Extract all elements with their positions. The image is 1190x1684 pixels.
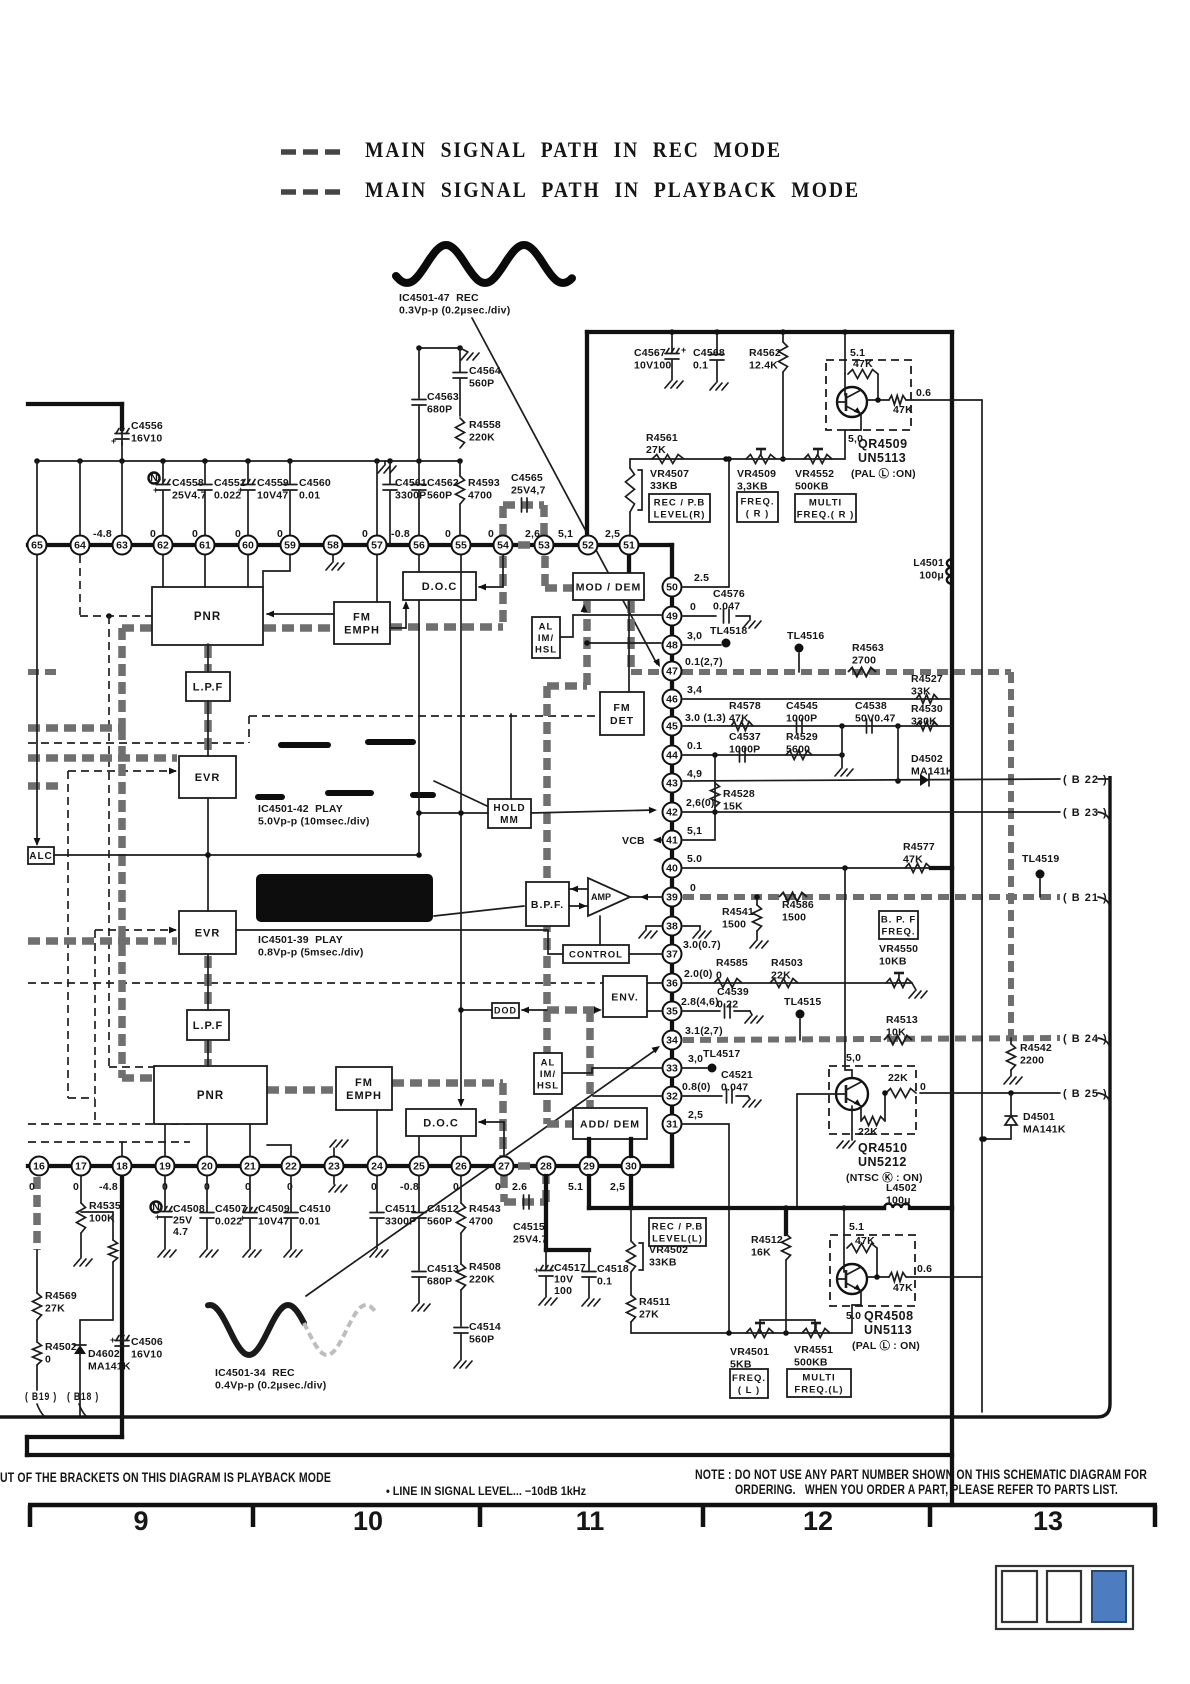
- page square 3 blue: [1092, 1571, 1126, 1622]
- capacitor C4559: [247, 461, 249, 484]
- right block right edge: [950, 332, 954, 1505]
- svg-text:60: 60: [242, 540, 254, 552]
- resistor R4541: [756, 897, 758, 905]
- svg-text:C4539: C4539: [717, 986, 749, 998]
- svg-text:R4503: R4503: [771, 957, 803, 969]
- svg-text:0.1(2,7): 0.1(2,7): [685, 656, 723, 668]
- svg-text:( B18 ): ( B18 ): [67, 1391, 99, 1403]
- box D.O.C 1: [403, 572, 476, 600]
- svg-text:IC4501-39 PLAY: IC4501-39 PLAY: [258, 934, 343, 946]
- capacitor C4556: [121, 429, 123, 445]
- svg-text:C4561: C4561: [395, 477, 427, 489]
- svg-text:330K: 330K: [911, 716, 937, 728]
- svg-text:+: +: [240, 1213, 245, 1223]
- svg-text:-4.8: -4.8: [99, 1181, 118, 1193]
- capacitor C4514: [454, 1327, 468, 1329]
- capacitor C4509: [249, 1176, 251, 1212]
- svg-text:0: 0: [488, 528, 494, 540]
- resistor 22K QR4510: [886, 1089, 916, 1098]
- resistor R4585: [714, 979, 742, 988]
- svg-text:B. P. F: B. P. F: [881, 914, 916, 925]
- transistor QR4510: [836, 1078, 868, 1110]
- rail junction: [202, 458, 208, 464]
- svg-text:D4501: D4501: [1023, 1111, 1055, 1123]
- wire pin27 arrow into DOC2: [503, 1122, 505, 1156]
- grounds pin38: [646, 925, 661, 927]
- svg-text:500KB: 500KB: [795, 481, 829, 493]
- svg-text:LEVEL(R): LEVEL(R): [654, 509, 706, 520]
- resistor R4563 on gray path: [848, 668, 876, 677]
- box EVR 1: [179, 756, 236, 798]
- ruler tick: [478, 1505, 483, 1527]
- right block top edge: [587, 330, 952, 334]
- svg-text:FREQ.: FREQ.: [881, 926, 915, 937]
- svg-text:40: 40: [666, 863, 678, 875]
- right block left edge: [585, 332, 589, 545]
- box B.P.F: [526, 882, 569, 926]
- svg-text:TL4517: TL4517: [703, 1048, 740, 1060]
- wires pins19-21 up: [164, 1124, 166, 1156]
- svg-text:5.1: 5.1: [849, 1221, 864, 1233]
- svg-text:4.7: 4.7: [173, 1226, 188, 1238]
- pointer blob to BPF: [434, 906, 524, 916]
- svg-text:IC4501-34 REC: IC4501-34 REC: [215, 1367, 295, 1379]
- svg-text:12: 12: [803, 1506, 833, 1536]
- svg-text:0.8(0): 0.8(0): [682, 1081, 711, 1093]
- svg-text:NOTE : DO NOT USE ANY PART NUM: NOTE : DO NOT USE ANY PART NUMBER SHOWN …: [695, 1467, 1147, 1482]
- wire B25: [920, 1092, 1060, 1094]
- resistor R4502: [33, 1342, 42, 1365]
- capacitor C4521: [683, 1095, 722, 1097]
- resistor R4511: [630, 1272, 632, 1295]
- svg-text:MAIN SIGNAL PATH IN PLAYBA: MAIN SIGNAL PATH IN PLAYBACK MODE: [365, 177, 860, 202]
- svg-text:16: 16: [33, 1161, 45, 1173]
- svg-text:HSL: HSL: [537, 1080, 559, 1091]
- svg-text:MA141K: MA141K: [1023, 1124, 1066, 1136]
- capacitor C4565: [521, 498, 523, 512]
- svg-text:100μ: 100μ: [919, 570, 944, 582]
- svg-text:C4567: C4567: [634, 347, 666, 359]
- wire C4538 junction down: [841, 726, 843, 768]
- branch resistor x113: [81, 1211, 113, 1213]
- test point TL4519: [1036, 870, 1045, 879]
- box D.O.C 2: [406, 1109, 476, 1136]
- svg-text:R4530: R4530: [911, 703, 943, 715]
- svg-text:47K: 47K: [855, 1235, 875, 1247]
- right block bottom edge: [27, 1453, 952, 1457]
- capacitor C4576: [683, 615, 716, 617]
- wire collector QR4510: [845, 868, 852, 1078]
- QR4508 dashed box: [830, 1235, 915, 1306]
- wire pin36 right: [683, 982, 912, 984]
- svg-text:+: +: [111, 436, 116, 446]
- pointer dashes to HOLD MM: [434, 781, 487, 806]
- svg-text:VR4552: VR4552: [795, 468, 834, 480]
- legend dash PLAYBACK: [281, 189, 296, 195]
- resistor R4586: [779, 893, 807, 902]
- svg-text:D4502: D4502: [911, 753, 943, 765]
- gray path MOD/DEM out left: [583, 601, 591, 686]
- svg-text:10: 10: [353, 1506, 383, 1536]
- wire pin29 up: [587, 1139, 591, 1156]
- svg-text:12.4K: 12.4K: [749, 360, 778, 372]
- capacitor C4510: [290, 1176, 292, 1212]
- svg-text:2,6: 2,6: [525, 528, 540, 540]
- svg-text:C4506: C4506: [131, 1336, 163, 1348]
- capacitor C4561: [389, 461, 391, 484]
- svg-text:MA141K: MA141K: [88, 1361, 131, 1373]
- svg-text:22K: 22K: [858, 1126, 878, 1138]
- box FM EMPH 2: [336, 1067, 392, 1110]
- svg-text:1500: 1500: [722, 919, 746, 931]
- svg-text:47K: 47K: [893, 1282, 913, 1294]
- resistor R4512: [784, 1208, 788, 1234]
- 0.6 long vertical: [981, 400, 983, 1412]
- wire pin32 left: [593, 1095, 661, 1097]
- svg-text:47K: 47K: [729, 713, 749, 725]
- ground on rail: [384, 461, 386, 465]
- svg-text:56: 56: [413, 540, 425, 552]
- resistor R4542: [1010, 1038, 1012, 1044]
- svg-text:21: 21: [244, 1161, 256, 1173]
- svg-text:23: 23: [328, 1161, 340, 1173]
- svg-text:27K: 27K: [646, 444, 666, 456]
- page squares outer: [996, 1566, 1133, 1629]
- diode D4602: [79, 1320, 81, 1345]
- svg-text:10V47: 10V47: [257, 490, 288, 502]
- svg-text:R4513: R4513: [886, 1014, 918, 1026]
- dashed border lines bottom left: [28, 1123, 190, 1125]
- svg-text:560P: 560P: [469, 1334, 494, 1346]
- svg-text:52: 52: [582, 540, 594, 552]
- svg-text:45: 45: [666, 721, 678, 733]
- resistor R4529: [786, 751, 812, 760]
- svg-text:FM: FM: [355, 1077, 373, 1089]
- box CONTROL: [563, 945, 629, 963]
- svg-text:57: 57: [371, 540, 383, 552]
- resistor R4562: [782, 332, 784, 342]
- svg-text:DET: DET: [610, 715, 634, 727]
- svg-text:65: 65: [31, 540, 43, 552]
- svg-text:61: 61: [199, 540, 211, 552]
- svg-text:46: 46: [666, 694, 678, 706]
- svg-text:2.5: 2.5: [694, 572, 709, 584]
- wire bottom row 1333: [631, 1332, 852, 1334]
- rail junction: [77, 458, 83, 464]
- ruler line: [28, 1503, 1157, 1508]
- svg-text:FREQ.(L): FREQ.(L): [794, 1384, 843, 1395]
- svg-text:31: 31: [666, 1119, 678, 1131]
- box EVR 2: [179, 911, 236, 954]
- rail junction: [245, 458, 251, 464]
- svg-text:R4543: R4543: [469, 1203, 501, 1215]
- dashed wire to PNR2: [108, 616, 110, 1067]
- svg-text:L4501: L4501: [913, 557, 944, 569]
- svg-text:0: 0: [495, 1181, 501, 1193]
- QR4510 dashed box: [829, 1066, 916, 1134]
- svg-text:IC4501-42 PLAY: IC4501-42 PLAY: [258, 803, 343, 815]
- wire pin42 to B23: [683, 811, 1060, 813]
- resistor 47K top QR4508: [847, 1244, 877, 1253]
- resistor 47K right QR4508: [867, 1276, 889, 1278]
- svg-text:+: +: [110, 1335, 115, 1345]
- capacitor C4560: [289, 461, 291, 484]
- wire pin46: [683, 698, 952, 700]
- svg-text:25V4,7: 25V4,7: [511, 485, 545, 497]
- wires BPF-AMP: [569, 888, 588, 890]
- wire EVR1 to EVR2: [207, 798, 209, 911]
- svg-text:LEVEL(L): LEVEL(L): [652, 1233, 703, 1244]
- capacitor C4518: [588, 1250, 590, 1270]
- svg-text:TL4519: TL4519: [1022, 853, 1059, 865]
- pot VR4507: [629, 459, 631, 468]
- ground pin58: [332, 555, 334, 562]
- wire emitter QR4510 gnd: [851, 1106, 853, 1140]
- svg-text:VCB: VCB: [622, 835, 645, 847]
- svg-text:53: 53: [538, 540, 550, 552]
- svg-text:0: 0: [445, 528, 451, 540]
- svg-text:22K: 22K: [888, 1072, 908, 1084]
- svg-text:1000P: 1000P: [786, 713, 817, 725]
- wire EVR2 to LPF2 and PNR2: [207, 954, 209, 1010]
- gray path B21: [683, 894, 1060, 900]
- amp triangle: [588, 878, 630, 916]
- svg-text:-4.8: -4.8: [93, 528, 112, 540]
- svg-text:FREQ.: FREQ.: [732, 1373, 766, 1384]
- svg-text:TL4516: TL4516: [787, 630, 824, 642]
- transistor QR4508: [837, 1264, 867, 1294]
- top jog C4563: [419, 347, 460, 349]
- svg-text:VR4501: VR4501: [730, 1346, 769, 1358]
- svg-text:FREQ.( R ): FREQ.( R ): [797, 509, 855, 520]
- gray path left column: [118, 728, 126, 1078]
- wire EVR2 right to CONTROL: [236, 930, 563, 954]
- svg-text:51: 51: [623, 540, 635, 552]
- svg-text:+: +: [681, 345, 686, 355]
- wire pin63 rail: [121, 461, 123, 536]
- box L.P.F 1: [186, 672, 230, 701]
- scope trace dashes row1: [281, 742, 328, 748]
- svg-text:QR4508: QR4508: [864, 1309, 914, 1323]
- svg-text:41: 41: [666, 835, 678, 847]
- left supply rail: [37, 460, 460, 462]
- gray path FM EMPH1 right: [390, 623, 503, 631]
- svg-text:R4529: R4529: [786, 731, 818, 743]
- svg-text:50: 50: [666, 582, 678, 594]
- svg-text:11: 11: [576, 1506, 605, 1536]
- svg-text:0.8Vp-p (5msec./div): 0.8Vp-p (5msec./div): [258, 947, 364, 959]
- svg-text:• LINE IN SIGNAL LEVEL... −10d: • LINE IN SIGNAL LEVEL... −10dB 1kHz: [386, 1484, 586, 1498]
- resistor R4513 on B24: [884, 1036, 912, 1045]
- box PNR 2: [154, 1066, 267, 1124]
- svg-text:TL4515: TL4515: [784, 996, 821, 1008]
- resistor R4527: [916, 695, 938, 704]
- svg-text:3,3KB: 3,3KB: [737, 481, 768, 493]
- capacitor C4562: [418, 461, 420, 484]
- svg-text:PNR: PNR: [194, 611, 221, 623]
- svg-text:R4508: R4508: [469, 1261, 501, 1273]
- capacitor C4512: [418, 1176, 420, 1212]
- ruler tick: [251, 1505, 256, 1527]
- capacitor C4513: [412, 1271, 426, 1273]
- svg-text:33: 33: [666, 1063, 678, 1075]
- svg-text:R4586: R4586: [782, 899, 814, 911]
- IC4501 bottom pin bus: [28, 1164, 672, 1168]
- svg-text:R4562: R4562: [749, 347, 781, 359]
- wire pin36 to ENV: [647, 982, 661, 984]
- test point TL4518: [683, 644, 721, 646]
- svg-text:ALC: ALC: [29, 851, 53, 862]
- waveform IC4501-34 REC sine solid part: [208, 1305, 304, 1355]
- capacitor C4568: [716, 332, 718, 353]
- arrow FM EMPH to PNR: [267, 613, 334, 615]
- wire pin40: [683, 867, 952, 869]
- svg-text:+: +: [155, 1212, 160, 1222]
- wire HOLD MM top: [510, 714, 512, 799]
- svg-text:10V100: 10V100: [634, 360, 671, 372]
- gray path into ADD/DEM: [547, 1120, 573, 1128]
- capacitor C4507: [206, 1176, 208, 1212]
- svg-text:55: 55: [455, 540, 467, 552]
- svg-text:0: 0: [192, 528, 198, 540]
- svg-text:C4513: C4513: [427, 1263, 459, 1275]
- svg-text:C4576: C4576: [713, 588, 745, 600]
- bridge over pots: [760, 1320, 815, 1333]
- svg-text:4700: 4700: [468, 490, 492, 502]
- box L.P.F 2: [187, 1010, 229, 1040]
- svg-text:PNR: PNR: [197, 1090, 224, 1102]
- svg-text:0: 0: [690, 882, 696, 894]
- svg-text:1000P: 1000P: [729, 744, 760, 756]
- svg-text:62: 62: [157, 540, 169, 552]
- svg-text:22: 22: [285, 1161, 297, 1173]
- svg-text:R4542: R4542: [1020, 1042, 1052, 1054]
- svg-text:C4514: C4514: [469, 1321, 501, 1333]
- svg-text:49: 49: [666, 611, 678, 623]
- gray path pin47 row: [631, 669, 1011, 675]
- svg-text:EVR: EVR: [195, 772, 221, 784]
- svg-text:0: 0: [287, 1181, 293, 1193]
- bottom left corner jog: [27, 1435, 122, 1439]
- wire AMP to CONTROL: [599, 916, 601, 945]
- IC4501 bottom pins 16-30: [30, 1157, 49, 1176]
- svg-text:MAIN SIGNAL PATH IN REC M: MAIN SIGNAL PATH IN REC MODE: [365, 137, 782, 162]
- capacitor C4551: [204, 461, 206, 484]
- test point TL4516: [795, 644, 804, 653]
- wire ALC to right: [54, 854, 419, 856]
- gray path into EVR1: [28, 754, 177, 762]
- dashed wire pin64 down: [79, 555, 81, 616]
- svg-text:C4512: C4512: [427, 1203, 459, 1215]
- svg-text:C4559: C4559: [257, 477, 289, 489]
- svg-text:16V10: 16V10: [131, 1349, 162, 1361]
- test point TL4517: [683, 1067, 707, 1069]
- svg-text:33K: 33K: [911, 686, 931, 698]
- svg-text:2200: 2200: [1020, 1055, 1044, 1067]
- svg-text:26: 26: [455, 1161, 467, 1173]
- resistor R4578: [731, 722, 753, 731]
- pointer line to pin 47: [472, 318, 657, 664]
- gray branch to MOD/DEM: [545, 584, 574, 592]
- resistor R4569: [36, 1250, 38, 1293]
- svg-text:R4593: R4593: [468, 477, 500, 489]
- svg-text:C4521: C4521: [721, 1069, 753, 1081]
- wire pin64 rail: [79, 461, 81, 536]
- wire pin24 up: [376, 1110, 378, 1156]
- svg-text:25V4.7: 25V4.7: [513, 1234, 547, 1246]
- svg-text:27K: 27K: [45, 1303, 65, 1315]
- svg-text:C4517: C4517: [554, 1262, 586, 1274]
- svg-text:220K: 220K: [469, 432, 495, 444]
- capacitor C4558: [149, 473, 160, 484]
- wire CONTROL to pin37: [629, 953, 661, 955]
- wire pin22 jog up: [267, 1145, 291, 1156]
- emitter resistor 22K QR4510: [860, 1106, 862, 1121]
- svg-text:0.1: 0.1: [693, 360, 708, 372]
- wire pin33 left: [592, 1067, 661, 1069]
- svg-text:0: 0: [45, 1354, 51, 1366]
- capacitor C4563: [418, 348, 420, 398]
- pot VR4550: [886, 979, 912, 988]
- svg-text:0.3Vp-p (0.2µsec./div): 0.3Vp-p (0.2µsec./div): [399, 305, 510, 317]
- svg-text:30: 30: [625, 1161, 637, 1173]
- wire emitter QR4509 to 5.0: [860, 413, 862, 430]
- gray arrow into MOD/DEM bottom: [581, 604, 588, 612]
- svg-text:1500: 1500: [782, 912, 806, 924]
- gray path into PNR1: [28, 724, 122, 732]
- box FM DET: [600, 692, 644, 735]
- svg-text:C4564: C4564: [469, 365, 501, 377]
- svg-text:63: 63: [116, 540, 128, 552]
- svg-text:UT OF THE BRACKETS ON THIS DIA: UT OF THE BRACKETS ON THIS DIAGRAM IS PL…: [0, 1470, 331, 1485]
- svg-text:0.047: 0.047: [713, 601, 740, 613]
- svg-text:B.P.F.: B.P.F.: [531, 899, 564, 911]
- svg-text:5.0Vp-p (10msec./div): 5.0Vp-p (10msec./div): [258, 816, 370, 828]
- svg-text:R4512: R4512: [751, 1234, 783, 1246]
- capacitor C4537: [739, 748, 741, 762]
- svg-text:0.6: 0.6: [917, 1263, 932, 1275]
- svg-text:R4541: R4541: [722, 906, 754, 918]
- svg-text:C4562: C4562: [427, 477, 459, 489]
- svg-text:38: 38: [666, 921, 678, 933]
- wire pin48 left: [587, 642, 661, 644]
- svg-text:0: 0: [716, 970, 722, 982]
- wire DOD left: [461, 1009, 492, 1011]
- svg-text:27: 27: [498, 1161, 510, 1173]
- pin18 long vertical: [120, 1166, 124, 1437]
- ruler tick: [928, 1505, 933, 1527]
- svg-text:AL: AL: [541, 1057, 556, 1068]
- svg-text:R4561: R4561: [646, 432, 678, 444]
- resistor R4503: [770, 979, 798, 988]
- svg-text:R4527: R4527: [911, 673, 943, 685]
- legend dash REC: [281, 149, 296, 155]
- svg-text:0: 0: [690, 601, 696, 613]
- box MULTI FREQ (R): [795, 494, 856, 522]
- svg-text:5.0: 5.0: [846, 1310, 861, 1322]
- svg-text:MM: MM: [500, 815, 519, 826]
- wire 0.6 QR4508: [906, 1276, 982, 1278]
- svg-text:500KB: 500KB: [794, 1357, 828, 1369]
- gray path PNR2 to FM EMPH2: [267, 1086, 336, 1094]
- svg-text:R4585: R4585: [716, 957, 748, 969]
- svg-text:3,4: 3,4: [687, 684, 702, 696]
- pot VR4502: [630, 1208, 632, 1241]
- resistor R4508: [457, 1264, 466, 1290]
- arrow amp to pin39: [630, 896, 661, 898]
- svg-text:35: 35: [666, 1006, 678, 1018]
- svg-text:24: 24: [371, 1161, 383, 1173]
